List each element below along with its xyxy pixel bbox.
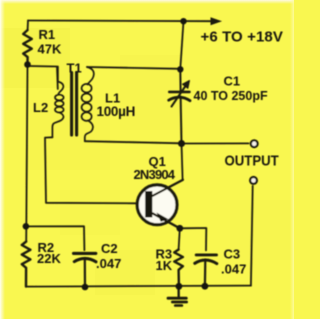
Q1 emitter lead inside with arrow [153, 213, 180, 228]
wire: emitter to R3 [179, 228, 180, 249]
wire: node B to C2 top [26, 226, 84, 250]
node B junction (rail/R2/C2) [23, 223, 30, 230]
node A junction (R1/L2/rail) [24, 61, 31, 68]
transformer T1 core [72, 73, 77, 136]
svg-text:C1: C1 [224, 74, 241, 89]
Q1 base bar [145, 191, 152, 217]
wire: output tap [182, 142, 249, 144]
svg-text:T1: T1 [67, 61, 82, 76]
arrowhead: V+ supply arrow [211, 17, 223, 25]
inductor L2 [52, 67, 63, 138]
wire: node A to L2 top [28, 66, 58, 89]
wire: L1 top to C1 branch [87, 67, 180, 69]
inductor L1 [82, 67, 94, 141]
svg-text:2N3904: 2N3904 [134, 167, 176, 182]
wire: bottom ground rail [26, 286, 251, 287]
capacitor C1 (variable) [169, 69, 190, 144]
ground [168, 286, 187, 305]
junction: L1 top / C1 branch [177, 66, 183, 72]
svg-text:L2: L2 [33, 100, 48, 115]
Q1 collector lead [153, 180, 183, 196]
wire: left rail (R1 top lead) [27, 21, 29, 31]
svg-text:+6 TO +18V: +6 TO +18V [201, 29, 283, 46]
terminal: OUTPUT hot [251, 140, 258, 147]
svg-text:C3: C3 [224, 247, 241, 262]
resistor R2 [22, 242, 31, 287]
svg-text:22K: 22K [37, 251, 61, 266]
wire: C1 branch vertical (top rail to L1 junction) [180, 21, 183, 69]
transistor Q1 [137, 180, 183, 229]
svg-text:.047: .047 [221, 262, 246, 277]
svg-text:R1: R1 [39, 27, 56, 42]
junction: C2 bottom on ground rail [82, 284, 89, 291]
svg-text:OUTPUT: OUTPUT [225, 152, 280, 169]
junction: C3 bottom on ground rail [202, 283, 209, 290]
Q1 emitter lead [153, 213, 180, 228]
wire: L1 bottom to collector node [85, 141, 182, 143]
svg-text:1K: 1K [156, 258, 173, 273]
svg-text:.047: .047 [96, 256, 121, 271]
capacitor C3 [195, 255, 217, 286]
wire: L2 bottom to Q1 base [45, 137, 136, 203]
capacitor C2 [74, 253, 97, 287]
wire: collector riser [182, 144, 183, 180]
svg-text:40 TO 250pF: 40 TO 250pF [194, 89, 268, 103]
svg-text:C2: C2 [101, 241, 118, 256]
svg-text:47K: 47K [38, 42, 62, 57]
wire: output return (lower terminal down and left) [251, 186, 253, 286]
Q1 circle [137, 185, 177, 225]
wire: top V+ rail [28, 20, 215, 23]
junction: top rail / C1 branch [180, 18, 186, 24]
arrowhead: Q1 emitter arrow [157, 213, 169, 222]
junction: emitter node [176, 225, 183, 232]
wire: left rail (node A down to R2) [26, 64, 27, 242]
Q1 collector lead inside [153, 180, 183, 196]
junction: collector node / output tap [178, 140, 185, 147]
resistor R1 [23, 30, 32, 64]
svg-text:100µH: 100µH [97, 104, 136, 119]
terminal: OUTPUT return [250, 177, 257, 184]
junction: R3 bottom / ground [176, 283, 183, 290]
wire: emitter to C3 top [180, 228, 207, 250]
arrowhead: C1 adjustment arrow [183, 81, 190, 89]
resistor R3 [174, 250, 183, 287]
